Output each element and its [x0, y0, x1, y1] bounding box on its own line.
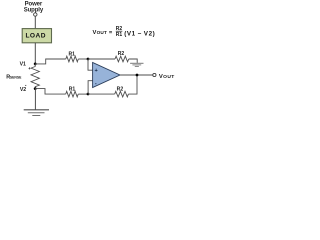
svg-text:LOAD: LOAD [25, 33, 45, 40]
svg-text:R2: R2 [117, 86, 124, 92]
node output junction [136, 74, 139, 77]
wire V1 to R1 top [35, 59, 66, 64]
wire supply to load [34, 16, 36, 28]
svg-text:VOUT: VOUT [159, 74, 175, 80]
svg-text:Supply: Supply [24, 8, 44, 14]
svg-text:V1: V1 [20, 61, 26, 67]
wire node B to R2 bottom [88, 93, 115, 95]
svg-text:R2: R2 [118, 51, 125, 57]
svg-text:V2: V2 [20, 87, 26, 93]
svg-text:Power: Power [25, 1, 43, 7]
node B junction [87, 93, 90, 96]
load box [22, 29, 51, 43]
wire R1 to node B [78, 93, 88, 95]
svg-text:-: - [95, 81, 97, 87]
op-amp U1 [93, 63, 120, 88]
wire R2 to ground small [129, 59, 138, 63]
node A junction [87, 58, 90, 61]
svg-text:R1: R1 [68, 51, 75, 57]
wire V2 to ground [34, 89, 36, 110]
wire node B to minus input [88, 81, 93, 94]
wire R2 bottom to output node [128, 75, 137, 94]
resistor R1 bottom [66, 91, 79, 97]
terminal VOUT [153, 73, 156, 76]
wire load to V1 [34, 43, 36, 64]
svg-text:R1: R1 [116, 32, 123, 38]
wire node A to R2 top [88, 58, 115, 60]
ground main [24, 110, 49, 116]
label Power Supply [24, 1, 44, 13]
terminal Power Supply [34, 13, 37, 16]
node V1 [34, 63, 37, 66]
wire output [120, 74, 153, 76]
node V2 [34, 87, 37, 90]
resistor R2 bottom [115, 91, 129, 97]
wire node A to plus input [88, 59, 93, 70]
svg-text:R1: R1 [69, 86, 76, 92]
svg-text:(V1 − V2): (V1 − V2) [124, 30, 155, 37]
svg-text:SENSE: SENSE [10, 76, 22, 80]
resistor R1 top [66, 56, 79, 62]
wire R1 to node A [78, 58, 88, 60]
ground small [130, 63, 143, 66]
formula VOUT equation [93, 26, 156, 38]
resistor RSENSE [31, 64, 39, 89]
resistor R2 top [115, 56, 129, 62]
wire V2 to R1 bottom [35, 89, 65, 95]
